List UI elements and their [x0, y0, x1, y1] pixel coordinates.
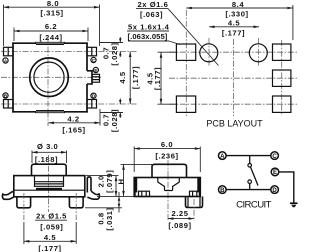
contact box left	[139, 191, 150, 196]
dim 0.8	[85, 192, 122, 231]
dim 4.5 horizontal	[209, 18, 259, 37]
svg-text:[.236]: [.236]	[155, 152, 178, 161]
svg-text:D: D	[92, 94, 96, 100]
left foot lead	[2, 191, 13, 199]
switch stub top	[249, 156, 251, 164]
dim 6.2	[14, 22, 88, 42]
pad top-right	[273, 44, 291, 60]
switch contact bottom	[248, 180, 252, 184]
lead bottom-right	[87, 100, 97, 109]
svg-text:[.028]: [.028]	[110, 109, 119, 132]
dim 4.5 right	[118, 52, 140, 105]
svg-text:C: C	[272, 153, 277, 160]
svg-text:8.0: 8.0	[47, 0, 59, 8]
svg-text:A: A	[4, 59, 8, 65]
callout 5x 1.6x1.4	[127, 22, 180, 44]
internal line	[14, 189, 85, 191]
dim 0.7 bottom right	[100, 99, 123, 133]
svg-text:[.031]: [.031]	[105, 207, 114, 230]
centerlines	[169, 51, 298, 53]
right strap lead	[87, 177, 91, 193]
svg-text:[.177]: [.177]	[38, 244, 61, 252]
svg-text:4.2: 4.2	[67, 114, 79, 123]
centerline vertical	[47, 36, 49, 126]
centerline bottom lead row	[1, 103, 138, 105]
actuator	[32, 164, 67, 175]
svg-text:0.7: 0.7	[101, 47, 110, 59]
top wire	[227, 155, 271, 157]
terminal mark E	[93, 67, 98, 74]
post centerline	[193, 199, 195, 221]
terminal mark C	[91, 57, 96, 64]
switch blade	[251, 167, 258, 185]
svg-text:[.028]: [.028]	[110, 42, 119, 65]
terminal B	[219, 186, 227, 194]
dia 3.0 dim	[32, 142, 67, 164]
plunger base dark	[36, 188, 62, 191]
button outer circle	[30, 58, 69, 97]
dim 2.0	[86, 170, 119, 197]
terminal C	[271, 152, 279, 160]
svg-text:0.7: 0.7	[101, 114, 110, 126]
svg-text:5x 1.6x1.4: 5x 1.6x1.4	[128, 22, 170, 31]
svg-text:A: A	[220, 153, 225, 160]
dim 6.0	[134, 140, 200, 172]
terminal D	[271, 186, 279, 194]
stem funnel	[158, 178, 180, 191]
svg-text:[.177]: [.177]	[222, 28, 245, 37]
svg-text:CIRCUIT: CIRCUIT	[236, 199, 271, 210]
svg-text:[.177]: [.177]	[153, 67, 162, 90]
dim H	[97, 164, 152, 196]
centerline top lead row	[1, 51, 138, 53]
svg-text:[.089]: [.089]	[168, 221, 191, 230]
right foot lead	[87, 191, 99, 199]
lead bottom-left	[4, 100, 14, 109]
svg-text:[.063x.055]: [.063x.055]	[128, 32, 168, 41]
svg-text:[.177]: [.177]	[131, 66, 140, 89]
svg-text:[.063]: [.063]	[140, 10, 163, 19]
svg-text:[.315]: [.315]	[40, 9, 63, 18]
inner opening	[35, 177, 64, 188]
svg-text:[.079]: [.079]	[105, 170, 114, 193]
pad bottom-left	[176, 96, 195, 112]
body outline with notches	[12, 42, 88, 112]
post side	[186, 197, 203, 208]
hole right	[249, 44, 267, 62]
body edge dark band left	[134, 178, 137, 193]
wire E to ground	[279, 172, 294, 203]
switch stub bottom	[249, 184, 251, 190]
centerline	[167, 160, 169, 221]
post inner lines	[187, 197, 189, 208]
post centerlines	[23, 193, 25, 220]
svg-text:8.4: 8.4	[232, 0, 244, 9]
svg-text:[.188]: [.188]	[35, 155, 58, 164]
terminal mark A	[3, 58, 8, 65]
lead top-left	[4, 47, 14, 56]
actuator	[152, 164, 187, 177]
terminal mark B	[3, 93, 8, 100]
pad top-left	[176, 44, 195, 60]
svg-text:H: H	[117, 178, 126, 184]
terminal E	[271, 168, 279, 176]
svg-text:B: B	[4, 94, 8, 100]
dim 2.25	[168, 209, 194, 230]
post right	[69, 198, 83, 208]
callout 2x dia1.5	[35, 212, 67, 232]
svg-text:4.5: 4.5	[228, 18, 240, 27]
svg-text:[.059]: [.059]	[40, 222, 63, 231]
vertical dim 4.5 left	[145, 52, 177, 104]
svg-text:2x Ø1.6: 2x Ø1.6	[138, 0, 169, 9]
contact box right	[190, 191, 201, 196]
bottom wire	[227, 189, 271, 191]
body	[14, 176, 85, 197]
svg-text:6.0: 6.0	[161, 140, 173, 149]
middle lead	[92, 74, 100, 82]
svg-text:4.5: 4.5	[118, 71, 127, 83]
body edge dark band right	[197, 178, 200, 193]
svg-text:B: B	[220, 187, 225, 194]
terminal A	[219, 152, 227, 160]
dim 4.5 bottom	[24, 222, 76, 252]
svg-text:[.165]: [.165]	[62, 125, 85, 134]
switch contact top	[248, 164, 252, 168]
svg-text:[.244]: [.244]	[39, 33, 62, 42]
svg-text:D: D	[272, 187, 277, 194]
hole left	[200, 44, 218, 62]
middle lead bump	[87, 71, 92, 84]
button inner circle	[34, 62, 64, 92]
svg-text:[.330]: [.330]	[225, 9, 248, 18]
dim 8.0	[4, 0, 100, 46]
svg-text:PCB LAYOUT: PCB LAYOUT	[206, 119, 263, 129]
svg-text:Ø 3.0: Ø 3.0	[37, 142, 58, 151]
callout 2x dia1.6	[136, 0, 219, 66]
body	[134, 178, 200, 197]
dim 8.4	[186, 0, 293, 40]
svg-text:4.5: 4.5	[44, 233, 56, 242]
centerline horizontal middle	[1, 76, 101, 78]
terminal mark D	[91, 93, 96, 100]
ground symbol	[290, 202, 298, 204]
svg-text:2.25: 2.25	[172, 209, 189, 218]
svg-text:2x Ø1.5: 2x Ø1.5	[36, 212, 67, 221]
centerline	[48, 155, 50, 212]
pad middle-right	[273, 70, 291, 86]
svg-text:C: C	[92, 58, 96, 64]
dim 0.7 top right	[100, 37, 123, 66]
dim 4.2 bottom	[48, 109, 100, 134]
post left	[17, 198, 31, 208]
svg-text:E: E	[273, 169, 277, 176]
pad bottom-right	[273, 96, 291, 112]
svg-text:6.2: 6.2	[45, 22, 57, 31]
lead top-right	[87, 47, 97, 56]
